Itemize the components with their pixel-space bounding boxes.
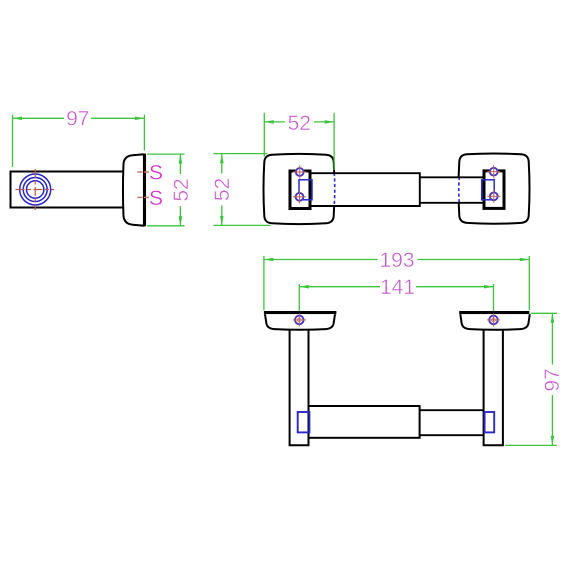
- dimension 97 right arrow top: [551, 313, 555, 323]
- dimension 193 extension left: [263, 256, 265, 310]
- bottom view right screw inner red circle: [492, 318, 496, 322]
- front view left flange: [264, 154, 335, 224]
- right flange hidden edge white underlay: [457, 177, 461, 204]
- dimension 52 extension line bottom: [147, 225, 185, 227]
- bottom view left arm: [290, 330, 309, 446]
- dimension 52 left arrow top: [220, 154, 224, 164]
- front view left hidden blue rect: [299, 180, 312, 200]
- side view roller end circle middle: [23, 178, 47, 202]
- dimension 52 top (front view) extension left: [263, 113, 265, 157]
- dimension 193 extension right: [528, 256, 530, 310]
- front view left bracket: [290, 171, 310, 209]
- dimension 52 top arrow right: [325, 120, 335, 124]
- dimension 97 text mask: [64, 110, 91, 127]
- front view right bottom screw cross: [487, 195, 500, 197]
- bottom view right dish: [460, 314, 530, 330]
- side view circle centerline horizontal: [16, 189, 55, 191]
- bottom view left screw circle: [295, 316, 304, 325]
- dimension 97 extension line right: [143, 115, 145, 151]
- front view left top screw cross: [293, 171, 306, 173]
- side view roller end circle outer: [20, 174, 51, 205]
- dimension 52 (side view, vertical) extension line top: [147, 153, 185, 155]
- bottom view right screw circle: [489, 316, 498, 325]
- svg-text:97: 97: [66, 108, 89, 131]
- bottom view left screw inner red circle: [297, 318, 301, 322]
- bottom view right wall thick line: [459, 311, 529, 314]
- svg-text:S: S: [149, 187, 163, 210]
- svg-text:52: 52: [170, 178, 193, 201]
- dimension 97 arrow left: [13, 117, 23, 121]
- svg-text:S: S: [149, 162, 163, 185]
- label S lower tick: [137, 196, 149, 198]
- dimension 97 arrow right: [135, 117, 145, 121]
- label S upper tick: [137, 171, 149, 173]
- dimension 52 top line: [264, 121, 334, 123]
- dimension 141 arrow right: [484, 285, 494, 289]
- dimension 52 arrow bottom: [179, 216, 183, 226]
- side view circle centerline vertical: [34, 169, 36, 210]
- dimension 141 line: [299, 286, 493, 288]
- bottom view left wall thick line: [264, 311, 337, 314]
- dimension 193 text mask: [378, 251, 418, 269]
- bottom view left dish: [265, 314, 335, 330]
- svg-text:52: 52: [288, 112, 311, 135]
- front view thin tube bottom line: [420, 202, 484, 204]
- side view roller end circle inner: [27, 181, 44, 198]
- bottom view left screw cross: [293, 319, 306, 321]
- front view left top screw circle: [296, 168, 304, 176]
- dimension 141 extension right: [493, 284, 495, 311]
- left flange hidden edge white underlay: [333, 173, 337, 207]
- front view roller tube: [310, 173, 420, 206]
- dimension 193 arrow left: [264, 258, 274, 262]
- dimension 97 right line: [551, 313, 553, 445]
- dimension 52 left (front view) extension top: [213, 153, 267, 155]
- front view right bracket: [484, 171, 504, 209]
- dimension 97 right text mask: [543, 365, 562, 396]
- dimension 52 line: [179, 154, 181, 226]
- front view left bottom screw cross: [293, 196, 306, 198]
- dimension 52 left arrow bottom: [220, 216, 224, 226]
- svg-text:52: 52: [211, 178, 234, 201]
- front view left bottom screw circle: [296, 193, 304, 201]
- dimension 52 text mask: [171, 174, 190, 206]
- bottom view right arm: [484, 330, 503, 446]
- svg-text:97: 97: [541, 368, 564, 391]
- front view right top screw circle: [490, 168, 498, 176]
- bottom view left hidden blue rect: [298, 412, 310, 432]
- front view right bottom screw circle: [490, 192, 498, 200]
- dimension 52 arrow top: [179, 154, 183, 164]
- front view right flange: [459, 154, 530, 224]
- dimension 97 right extension bottom: [505, 444, 557, 446]
- dimension 52 left extension bottom: [213, 224, 270, 226]
- svg-text:193: 193: [379, 249, 414, 272]
- dimension 141 text mask: [380, 278, 416, 296]
- side view bar outline: [11, 172, 127, 208]
- front view right hidden blue rect: [482, 180, 495, 200]
- dimension 52 left line: [221, 154, 223, 226]
- dimension 52 top arrow left: [264, 120, 274, 124]
- front view thin tube top line: [420, 176, 484, 178]
- dimension 97 (side view, horizontal) extension line left: [12, 115, 14, 168]
- right flange hidden edge blue dashed: [458, 177, 461, 204]
- svg-text:141: 141: [380, 276, 415, 299]
- bottom view roller: [309, 406, 420, 438]
- bottom view thin tube bottom line: [420, 434, 484, 436]
- dimension 141 arrow left: [299, 285, 309, 289]
- side view flange profile: [123, 154, 144, 226]
- bottom view thin tube top line: [420, 409, 484, 411]
- dimension 97 right arrow bottom: [551, 436, 555, 446]
- dimension 193 arrow right: [520, 258, 530, 262]
- dimension 52 top text mask: [285, 114, 314, 132]
- dimension 141 extension left: [298, 284, 300, 311]
- front view right top screw cross: [487, 171, 500, 173]
- bottom view right screw cross: [487, 319, 500, 321]
- dimension 97 right (bottom view) extension top: [531, 312, 557, 314]
- dimension 193 line: [264, 259, 529, 261]
- dimension 97 line: [13, 117, 145, 119]
- dimension 52 left text mask: [213, 174, 232, 206]
- dimension 52 top extension right: [333, 113, 335, 170]
- side view wall face thick line: [143, 154, 146, 227]
- bottom view right hidden blue rect: [485, 412, 495, 432]
- left flange hidden edge blue dashed: [333, 173, 336, 207]
